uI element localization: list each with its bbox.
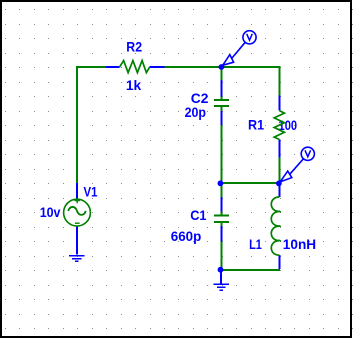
svg-text:660p: 660p — [171, 228, 202, 244]
svg-text:10v: 10v — [40, 204, 61, 220]
svg-text:V1: V1 — [84, 184, 98, 200]
svg-text:L1: L1 — [249, 236, 262, 252]
svg-text:R1: R1 — [248, 117, 264, 133]
svg-text:10nH: 10nH — [283, 236, 316, 252]
svg-text:1k: 1k — [126, 77, 142, 93]
svg-text:C1: C1 — [190, 207, 206, 223]
svg-text:20p: 20p — [185, 104, 206, 120]
svg-text:R2: R2 — [126, 39, 142, 55]
